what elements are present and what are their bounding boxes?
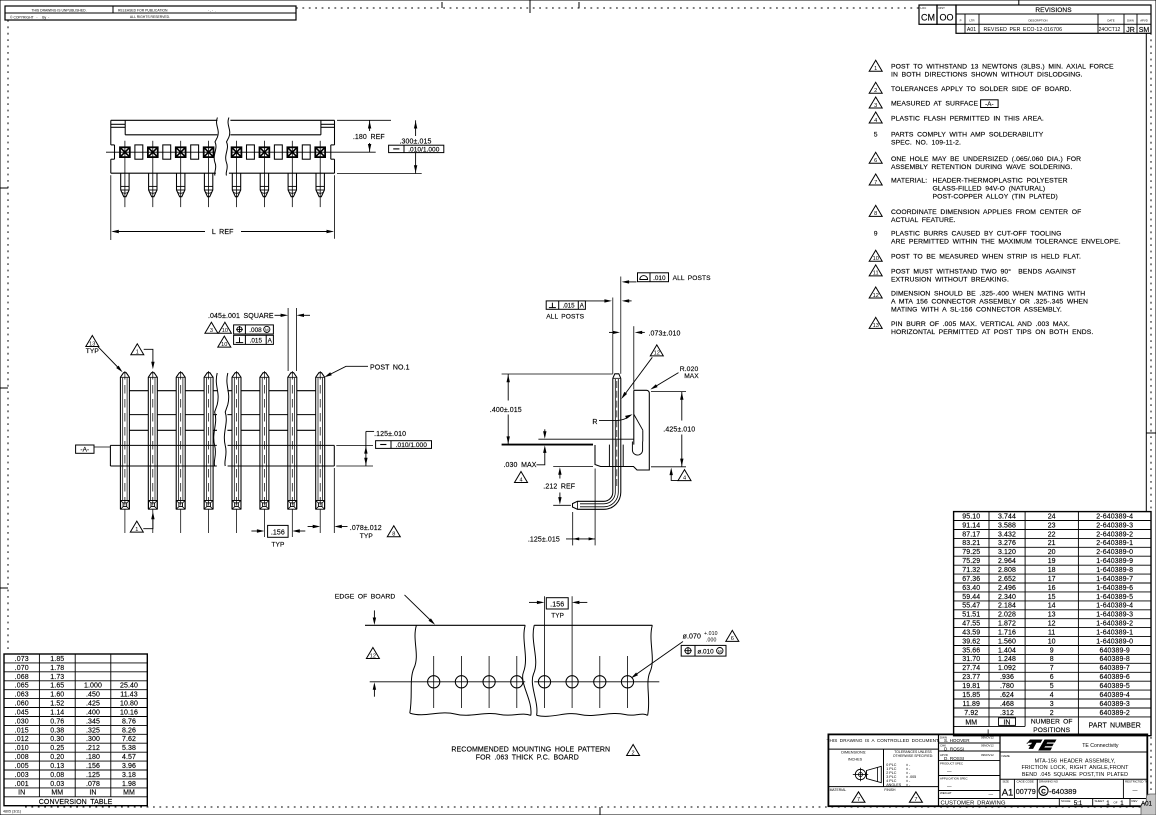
svg-text:PIN BURR OF .005 MAX. VERTICAL: PIN BURR OF .005 MAX. VERTICAL AND .003 … (891, 321, 1070, 328)
svg-text:8: 8 (874, 211, 877, 217)
svg-text:1.65: 1.65 (50, 683, 64, 690)
svg-text:10: 10 (222, 328, 228, 334)
svg-text:.073: .073 (15, 656, 29, 663)
svg-text:.400±.015: .400±.015 (490, 407, 522, 414)
svg-text:+.010: +.010 (704, 631, 718, 637)
svg-text:11.89: 11.89 (963, 701, 981, 708)
svg-text:.936: .936 (1000, 674, 1014, 681)
label POST NO.1 (324, 364, 409, 377)
title block: size/cage/drawing no (1002, 780, 1149, 799)
svg-text:4805 (3/11): 4805 (3/11) (3, 810, 21, 814)
svg-text:3.276: 3.276 (998, 540, 1016, 547)
svg-text:OO: OO (939, 13, 953, 23)
sheet border bottom (dotted) (25, 807, 1146, 815)
svg-text:THIS DRAWING IS A CONTROLLED D: THIS DRAWING IS A CONTROLLED DOCUMENT. (827, 738, 940, 743)
svg-text:6: 6 (1050, 674, 1054, 681)
svg-text:3.588: 3.588 (998, 522, 1016, 529)
note 2 (869, 82, 1071, 94)
top view: header body outline (111, 120, 335, 173)
svg-text:-A-: -A- (80, 447, 89, 454)
svg-text:REVISIONS: REVISIONS (1035, 7, 1072, 14)
svg-text:REVISED PER ECO-12-016706: REVISED PER ECO-12-016706 (984, 27, 1063, 33)
svg-text:15.85: 15.85 (962, 692, 980, 699)
svg-text:D. ROSSI: D. ROSSI (944, 756, 964, 761)
svg-text:4: 4 (519, 477, 522, 483)
svg-text:.156: .156 (550, 602, 564, 609)
svg-text:1: 1 (136, 350, 139, 356)
svg-text:IN: IN (89, 790, 96, 797)
svg-text:-640389: -640389 (1049, 787, 1077, 796)
svg-text:CM: CM (921, 13, 935, 23)
svg-text:1: 1 (135, 527, 138, 533)
svg-text:83.21: 83.21 (962, 540, 980, 547)
svg-text:DIMENSIONS:: DIMENSIONS: (841, 750, 866, 754)
top view: guide rectangles (135, 145, 310, 159)
svg-text:3.120: 3.120 (998, 549, 1016, 556)
dimension .078 +/- .012 TYP with flag 8 (308, 468, 401, 540)
svg-text:.180: .180 (86, 754, 100, 761)
svg-text:GLASS-FILLED 94V-O (NATURAL): GLASS-FILLED 94V-O (NATURAL) (933, 186, 1046, 193)
svg-text:.045: .045 (15, 710, 29, 717)
svg-text:.030: .030 (15, 718, 29, 725)
svg-text:18: 18 (1048, 567, 1056, 574)
svg-text:.045±.001 SQUARE: .045±.001 SQUARE (208, 313, 274, 320)
svg-text:.624: .624 (1000, 692, 1014, 699)
svg-text:.468: .468 (1000, 701, 1014, 708)
svg-text:.012: .012 (15, 736, 29, 743)
sheet border left (dotted) (0, 20, 8, 654)
svg-text:09NOV12: 09NOV12 (981, 735, 994, 739)
svg-text:11: 11 (1048, 630, 1055, 637)
svg-text:10.16: 10.16 (120, 710, 138, 717)
note 9 (874, 231, 1121, 246)
svg-text:.015: .015 (562, 302, 575, 309)
svg-text:M: M (265, 328, 269, 333)
svg-text:RECOMMENDED MOUNTING HOLE PATT: RECOMMENDED MOUNTING HOLE PATTERN (451, 746, 610, 753)
svg-text:ARE PERMITTED WITHIN THE MAXIM: ARE PERMITTED WITHIN THE MAXIMUM TOLERAN… (891, 239, 1121, 246)
svg-text:1.73: 1.73 (50, 674, 64, 681)
svg-text:1-640389-7: 1-640389-7 (1096, 576, 1133, 583)
svg-text:DIMENSION SHOULD BE .325-.400: DIMENSION SHOULD BE .325-.400 WHEN MATIN… (891, 291, 1085, 298)
svg-text:10: 10 (221, 342, 227, 348)
dimension board edge to holes with flag 12 (366, 610, 379, 696)
svg-text:24: 24 (1048, 513, 1056, 520)
svg-text:DATE: DATE (1107, 19, 1114, 23)
svg-text:23.77: 23.77 (962, 674, 980, 681)
svg-text:.010/1.000: .010/1.000 (396, 442, 427, 449)
svg-text:3: 3 (210, 328, 213, 334)
svg-text:.003: .003 (15, 772, 29, 779)
svg-text:12: 12 (370, 653, 376, 659)
svg-text:1.78: 1.78 (50, 665, 64, 672)
svg-text:0.13: 0.13 (50, 763, 64, 770)
svg-text:640389-3: 640389-3 (1100, 701, 1130, 708)
svg-text:8: 8 (1050, 656, 1054, 663)
svg-text:87.17: 87.17 (962, 531, 980, 538)
svg-text:27.74: 27.74 (962, 665, 980, 672)
right margin line (1145, 33, 1147, 511)
note 6 (869, 152, 1081, 171)
svg-text:-A-: -A- (985, 101, 994, 108)
svg-text:PLASTIC BURRS CAUSED BY CUT-OF: PLASTIC BURRS CAUSED BY CUT-OFF TOOLING (891, 231, 1062, 238)
svg-text:1-640389-8: 1-640389-8 (1096, 567, 1133, 574)
svg-text:EXTRUSION WITHOUT BREAKING.: EXTRUSION WITHOUT BREAKING. (891, 276, 1009, 283)
svg-text:2: 2 (632, 750, 635, 756)
svg-text:RESTRICTED TO: RESTRICTED TO (1125, 780, 1149, 784)
svg-text:3.96: 3.96 (122, 763, 136, 770)
side view: post center line (616, 381, 618, 488)
svg-text:7.62: 7.62 (122, 736, 136, 743)
svg-text:CAGE CODE: CAGE CODE (1017, 780, 1034, 784)
svg-text:D. ROSSI: D. ROSSI (944, 746, 964, 751)
mounting holes (428, 676, 634, 688)
pc board torn edges (410, 625, 653, 716)
svg-text:ø.010: ø.010 (697, 648, 714, 655)
svg-text:1.248: 1.248 (998, 656, 1016, 663)
svg-text:13: 13 (873, 323, 879, 329)
svg-text:OTHERWISE SPECIFIED:: OTHERWISE SPECIFIED: (893, 754, 933, 758)
svg-text:FRICTION LOCK, RIGHT ANGLE,FRO: FRICTION LOCK, RIGHT ANGLE,FRONT (1021, 765, 1129, 771)
pc board edge lines (365, 624, 652, 626)
dimension .300 +/- .015 with flatness frame (337, 120, 444, 173)
caption: recommended mounting hole pattern with flag 2 (451, 745, 639, 762)
svg-text:RELEASED FOR PUBLICATION: RELEASED FOR PUBLICATION (118, 8, 168, 12)
svg-text:4.57: 4.57 (122, 754, 136, 761)
svg-text:0.38: 0.38 (50, 727, 64, 734)
dimension .156 TYP (holes) (529, 598, 587, 620)
svg-text:COORDINATE DIMENSION APPLIES F: COORDINATE DIMENSION APPLIES FROM CENTER… (891, 209, 1081, 216)
svg-text:79.25: 79.25 (962, 549, 980, 556)
svg-text:.078±.012: .078±.012 (350, 525, 382, 532)
side view: post extension lines up (613, 277, 621, 374)
title block frame (828, 734, 1147, 806)
feature control frame: perpendicularity .015 A with flag 10 (218, 335, 274, 348)
svg-text:POST-COPPER ALLOY (TIN PLATED): POST-COPPER ALLOY (TIN PLATED) (933, 194, 1058, 201)
svg-text:POSITIONS: POSITIONS (1033, 727, 1070, 734)
svg-text:9: 9 (1050, 647, 1054, 654)
svg-text:.060: .060 (15, 701, 29, 708)
svg-text:4: 4 (874, 118, 877, 124)
svg-text:.312: .312 (1000, 710, 1014, 717)
svg-text:7: 7 (857, 797, 860, 803)
svg-text:2.184: 2.184 (998, 603, 1016, 610)
svg-text:.078: .078 (86, 781, 100, 788)
svg-text:23: 23 (1048, 522, 1056, 529)
flag 1 leader to post 2 bottom (130, 512, 154, 533)
svg-text:8: 8 (392, 532, 395, 538)
svg-text:.125±.015: .125±.015 (528, 537, 560, 544)
svg-text:.212: .212 (86, 745, 100, 752)
title block: dimensions / tolerances (841, 750, 933, 787)
svg-text:APVD: APVD (1140, 19, 1148, 23)
svg-text:ANGLES: ANGLES (886, 783, 902, 787)
svg-text:640389-2: 640389-2 (1100, 710, 1130, 717)
dimension .180 REF (337, 120, 391, 152)
svg-text:DWN: DWN (1127, 19, 1134, 23)
svg-text:© COPYRIGHT - By -: © COPYRIGHT - By - (10, 15, 49, 19)
svg-text:—: — (989, 791, 994, 796)
svg-text:SHEET: SHEET (1095, 799, 1105, 803)
svg-text:- , - .: - , - . (208, 8, 216, 12)
svg-text:A: A (268, 338, 273, 345)
svg-text:TYP: TYP (360, 533, 374, 540)
svg-text:ASSEMBLY RETENTION DURING WAVE: ASSEMBLY RETENTION DURING WAVE SOLDERING… (891, 164, 1072, 171)
svg-text:1: 1 (1120, 800, 1124, 807)
svg-text:14: 14 (1048, 603, 1056, 610)
svg-text:1.872: 1.872 (998, 621, 1016, 628)
svg-text:R: R (592, 419, 597, 426)
svg-text:0.76: 0.76 (50, 718, 64, 725)
title block: projection symbol (853, 766, 882, 782)
side view: housing (595, 390, 649, 470)
svg-text:SIZE: SIZE (1003, 780, 1009, 784)
flag 1 leader to post 2 tip (131, 344, 155, 370)
callout: perpendicularity .015 A ALL POSTS (546, 299, 631, 320)
svg-text:DRAWING NO: DRAWING NO (1039, 780, 1059, 784)
svg-text:.015: .015 (250, 338, 263, 345)
svg-text:6: 6 (874, 158, 877, 164)
revisions table (956, 0, 1151, 34)
label R leader (592, 414, 632, 426)
svg-text:.070: .070 (15, 665, 29, 672)
sheet border top (dotted) (296, 0, 919, 13)
note 4 (869, 112, 1044, 124)
svg-text:55.47: 55.47 (962, 603, 980, 610)
svg-text:.450: .450 (86, 692, 100, 699)
svg-text:WEIGHT: WEIGHT (940, 791, 952, 795)
svg-text:5: 5 (874, 132, 878, 139)
svg-text:09NOV12: 09NOV12 (981, 744, 994, 748)
svg-text:20: 20 (1048, 549, 1056, 556)
note 1 (869, 60, 1114, 78)
svg-text:R.020: R.020 (680, 366, 699, 373)
svg-text:1: 1 (874, 66, 877, 72)
svg-text:—: — (947, 769, 952, 774)
sheet border right (dotted) (1146, 33, 1156, 794)
svg-text:.300: .300 (86, 736, 100, 743)
title block: customer drawing (941, 801, 1006, 807)
title block: names (940, 735, 994, 796)
title block: material / finish flags (830, 788, 923, 803)
svg-text:12: 12 (1048, 621, 1056, 628)
dimension .045 +/- .001 SQUARE (208, 308, 310, 371)
svg-text:ONE HOLE MAY BE UNDERSIZED (.0: ONE HOLE MAY BE UNDERSIZED (.065/.060 DI… (891, 156, 1081, 163)
svg-text:DESCRIPTION: DESCRIPTION (1028, 19, 1047, 23)
svg-text:ø.070: ø.070 (683, 634, 701, 641)
svg-text:OF: OF (1114, 800, 1118, 804)
svg-text:ACTUAL FEATURE.: ACTUAL FEATURE. (891, 217, 956, 224)
svg-text:LOC: LOC (921, 6, 927, 10)
svg-text:16: 16 (1048, 585, 1056, 592)
svg-text:2-640389-2: 2-640389-2 (1096, 531, 1133, 538)
svg-text:1.14: 1.14 (50, 710, 64, 717)
svg-text:11.43: 11.43 (120, 692, 138, 699)
form number (3, 810, 21, 814)
svg-text:.425: .425 (86, 701, 100, 708)
svg-text:M: M (718, 649, 722, 654)
svg-text:43.59: 43.59 (962, 630, 980, 637)
svg-text:2.028: 2.028 (998, 612, 1016, 619)
callout: crown .010 ALL POSTS (622, 273, 711, 284)
feature control frame: position .008 M with flags 3,10 (205, 322, 274, 334)
svg-text:.005: .005 (15, 763, 29, 770)
svg-text:1.85: 1.85 (50, 656, 64, 663)
svg-text:7.92: 7.92 (964, 710, 978, 717)
svg-text:5: 5 (1050, 683, 1054, 690)
svg-text:1-640389-2: 1-640389-2 (1096, 621, 1133, 628)
front view: post center lines (dashed) (125, 371, 320, 537)
svg-text:2-640389-0: 2-640389-0 (1096, 549, 1133, 556)
svg-text:MATING WITH A SL-156 CONNECTOR: MATING WITH A SL-156 CONNECTOR ASSEMBLY. (891, 307, 1062, 314)
svg-text:10: 10 (1048, 638, 1056, 645)
svg-text:POST TO BE MEASURED WHEN STRIP: POST TO BE MEASURED WHEN STRIP IS HELD F… (891, 254, 1081, 261)
dimension .156 TYP (front) (251, 525, 305, 548)
svg-text:POST MUST WITHSTAND TWO 90° B: POST MUST WITHSTAND TWO 90° BENDS AGAINS… (891, 267, 1076, 275)
svg-text:2.496: 2.496 (998, 585, 1016, 592)
svg-text:1.716: 1.716 (998, 630, 1016, 637)
title block: part name (1002, 754, 1130, 778)
note 7 (869, 174, 1067, 201)
svg-text:640389-8: 640389-8 (1100, 656, 1130, 663)
side view: seating plane lines (502, 439, 634, 444)
svg-text:13: 13 (1048, 612, 1056, 619)
svg-text:640389-9: 640389-9 (1100, 647, 1130, 654)
svg-text:8.26: 8.26 (122, 727, 136, 734)
svg-text:APPLICATION SPEC: APPLICATION SPEC (940, 776, 968, 780)
front view: housing wall lines (129, 391, 316, 431)
svg-text:51.51: 51.51 (962, 612, 980, 619)
svg-text:ALL RIGHTS RESERVED.: ALL RIGHTS RESERVED. (130, 15, 170, 19)
hole center lines (370, 596, 660, 708)
svg-text:.073±.010: .073±.010 (649, 330, 681, 337)
side view: bent post (573, 374, 621, 510)
svg-text:95.10: 95.10 (962, 513, 980, 520)
svg-text:00779: 00779 (1016, 787, 1036, 796)
svg-text:.156: .156 (86, 763, 100, 770)
datum -A- (76, 445, 111, 454)
svg-text:MATERIAL: MATERIAL (830, 788, 847, 792)
svg-text:S. HOOVER: S. HOOVER (944, 738, 970, 743)
svg-text:EDGE OF BOARD: EDGE OF BOARD (335, 593, 396, 600)
svg-text:.425±.010: .425±.010 (663, 427, 695, 434)
svg-text:.063: .063 (15, 692, 29, 699)
svg-text:SPEC. NO. 109-11-2.: SPEC. NO. 109-11-2. (891, 140, 961, 147)
svg-text:.010: .010 (653, 275, 666, 282)
svg-text:PLASTIC FLASH PERMITTED IN THI: PLASTIC FLASH PERMITTED IN THIS AREA. (891, 116, 1044, 123)
svg-text:L REF: L REF (212, 229, 234, 236)
svg-text:ALL POSTS: ALL POSTS (673, 275, 711, 282)
svg-text:12: 12 (873, 293, 879, 299)
svg-text:LTR: LTR (969, 19, 974, 23)
dimension .212 REF (543, 467, 593, 506)
svg-text:HORIZONTAL PERMITTED AT POST T: HORIZONTAL PERMITTED AT POST TIPS ON BOT… (891, 329, 1093, 336)
svg-text:1.52: 1.52 (50, 701, 64, 708)
top view: break lines (214, 118, 230, 176)
svg-text:1-640389-3: 1-640389-3 (1096, 612, 1133, 619)
svg-text:.010/1.000: .010/1.000 (408, 146, 439, 153)
svg-text:THIS DRAWING IS UNPUBLISHED.: THIS DRAWING IS UNPUBLISHED. (31, 8, 86, 12)
label EDGE OF BOARD (335, 593, 435, 624)
svg-text:A01: A01 (1141, 800, 1153, 807)
svg-text:MM: MM (965, 719, 977, 726)
svg-text:BEND .045 SQUARE POST,TIN PLAT: BEND .045 SQUARE POST,TIN PLATED (1022, 772, 1128, 778)
svg-text:.015: .015 (15, 727, 29, 734)
svg-text:3.744: 3.744 (998, 513, 1016, 520)
svg-text:MAX: MAX (684, 373, 699, 380)
svg-text:59.44: 59.44 (962, 594, 980, 601)
svg-text:5.38: 5.38 (122, 745, 136, 752)
svg-text:CUSTOMER DRAWING: CUSTOMER DRAWING (941, 801, 1006, 807)
svg-text:.008: .008 (249, 327, 262, 334)
svg-text:1.092: 1.092 (998, 665, 1016, 672)
flag 13 TYP leader to post 1 (86, 336, 123, 373)
svg-text:35.66: 35.66 (962, 647, 980, 654)
note 13 (869, 317, 1093, 336)
svg-text:MEASURED AT SURFACE: MEASURED AT SURFACE (891, 101, 979, 108)
svg-text:1-640389-0: 1-640389-0 (1096, 638, 1133, 645)
svg-text:TYP: TYP (271, 541, 285, 548)
svg-text:.780: .780 (1000, 683, 1014, 690)
note 11 (869, 265, 1076, 284)
svg-text:75.29: 75.29 (962, 558, 980, 565)
svg-text:25.40: 25.40 (120, 683, 138, 690)
svg-text:0.20: 0.20 (50, 754, 64, 761)
front view: base bar (110, 445, 334, 466)
svg-text:A1: A1 (1002, 787, 1014, 798)
top view: post squares with X (120, 147, 325, 157)
svg-text:2-640389-4: 2-640389-4 (1096, 513, 1133, 520)
top view: center lines (106, 141, 376, 207)
svg-text:JR: JR (1126, 27, 1135, 34)
svg-text:TYP: TYP (86, 348, 100, 355)
svg-text:FOR .063 THICK P.C. BOARD: FOR .063 THICK P.C. BOARD (476, 755, 579, 762)
svg-text:ALL POSTS: ALL POSTS (546, 313, 584, 320)
dimension .125 +/- .010 with flatness frame (front) (336, 431, 431, 466)
flag 12 leader to post (621, 345, 663, 399)
top view: pins below body (121, 173, 325, 197)
svg-text:3.432: 3.432 (998, 531, 1016, 538)
svg-text:13: 13 (89, 341, 95, 347)
svg-text:39.62: 39.62 (962, 638, 980, 645)
svg-text:0.08: 0.08 (50, 772, 64, 779)
svg-text:C: C (1041, 789, 1046, 796)
svg-text:CONVERSION TABLE: CONVERSION TABLE (39, 799, 113, 806)
svg-text:TOLERANCES APPLY TO SOLDER SID: TOLERANCES APPLY TO SOLDER SIDE OF BOARD… (891, 86, 1071, 93)
svg-text:2-640389-3: 2-640389-3 (1096, 522, 1133, 529)
front view: posts (120, 373, 324, 510)
header block: unpublished / copyright (5, 6, 296, 20)
svg-text:.001: .001 (15, 781, 29, 788)
svg-text:A MTA 156 CONNECTOR ASSEMBLY O: A MTA 156 CONNECTOR ASSEMBLY OR .325-.34… (891, 299, 1088, 306)
svg-text:MM: MM (51, 790, 63, 797)
svg-text:640389-5: 640389-5 (1100, 683, 1130, 690)
svg-text:91.14: 91.14 (962, 522, 980, 529)
svg-text:1.000: 1.000 (84, 683, 102, 690)
svg-text:09NOV12: 09NOV12 (981, 753, 994, 757)
svg-text:NUMBER OF: NUMBER OF (1031, 719, 1073, 726)
svg-text:.156: .156 (271, 530, 285, 537)
note 8 (869, 205, 1081, 224)
svg-text:8.76: 8.76 (122, 718, 136, 725)
svg-text:63.40: 63.40 (962, 585, 980, 592)
svg-text:—: — (1132, 788, 1137, 794)
svg-text:.125±.010: .125±.010 (374, 431, 406, 438)
title block: scale/sheet/rev (1061, 799, 1138, 807)
svg-text:HEADER-THERMOPLASTIC POLYESTER: HEADER-THERMOPLASTIC POLYESTER (933, 178, 1068, 185)
svg-text:2.964: 2.964 (998, 558, 1016, 565)
svg-text:2.340: 2.340 (998, 594, 1016, 601)
label R.020 MAX (650, 366, 699, 390)
